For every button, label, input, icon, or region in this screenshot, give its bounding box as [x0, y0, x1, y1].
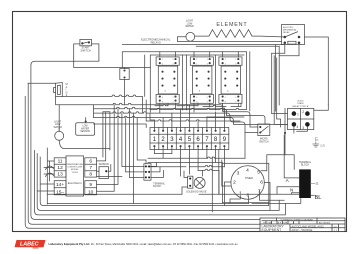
wire: outer left drop: [25, 96, 341, 228]
svg-text:3: 3: [173, 63, 174, 65]
wire: enclosure bottom to relay bus: [74, 61, 151, 67]
label: TEMPERATURE CONTROLLER MODEL Y1020: [67, 163, 84, 185]
wire: bus y113.1: [94, 112, 230, 119]
terminal block TB2 (small): [144, 164, 151, 181]
wire: hop row 2 below relays: [146, 120, 240, 121]
mains inlet plug: [54, 83, 63, 97]
svg-text:2: 2: [233, 180, 236, 186]
svg-text:2: 2: [196, 59, 197, 61]
svg-text:SENSOR: SENSOR: [80, 131, 90, 133]
svg-text:AW13 – 5A000AE: AW13 – 5A000AE: [292, 228, 313, 232]
wire: bus y108.7: [94, 107, 227, 115]
svg-text:7: 7: [173, 102, 174, 104]
wire: [37, 154, 279, 211]
svg-text:BL: BL: [315, 195, 322, 201]
ground E / GR: [313, 137, 326, 148]
svg-text:6: 6: [225, 97, 226, 99]
micro switch S2: [258, 124, 270, 136]
wire: TB2 right stubs: [151, 162, 164, 177]
svg-text:3: 3: [207, 63, 208, 65]
svg-text:WATER: WATER: [185, 25, 194, 28]
wire: controller left feeds: [37, 148, 54, 204]
TB1 terminal dots: [153, 130, 225, 148]
timer T1: [222, 163, 268, 202]
svg-text:WATER: WATER: [81, 127, 89, 130]
wire: nested verticals right of relay bank: [272, 46, 288, 127]
wire: bottom area horizontals: [47, 194, 300, 203]
wire: start switch loop left: [31, 61, 338, 219]
temperature controller U1: [54, 156, 96, 196]
title block: [260, 218, 345, 232]
wire: to timer and right: [189, 157, 245, 176]
svg-text:1: 1: [297, 112, 299, 116]
svg-text:Laboratory Equipment Pty Ltd •: Laboratory Equipment Pty Ltd • 26 - 30 F…: [49, 242, 239, 246]
heating element (zigzag): [195, 30, 285, 38]
svg-text:7: 7: [235, 102, 236, 104]
wire: bus under element: [178, 40, 282, 42]
wire: fuse drops: [124, 68, 126, 105]
svg-text:Eurotherm: Eurotherm: [68, 181, 83, 185]
svg-text:LABEC: LABEC: [20, 242, 39, 248]
wire: left riser group to controller: [35, 151, 286, 215]
solid state relay SSR1: [288, 108, 314, 129]
svg-text:RELAY TYPE ‘A’: RELAY TYPE ‘A’: [292, 105, 309, 108]
svg-text:LOW: LOW: [82, 126, 88, 128]
svg-text:BLOCK: BLOCK: [153, 186, 161, 188]
title block text: [262, 218, 338, 232]
svg-text:AUTOCLAVE MODEL AA12: AUTOCLAVE MODEL AA12: [292, 224, 325, 228]
svg-text:5: 5: [207, 97, 208, 99]
low water sensor: [76, 118, 95, 136]
wire: strip bottom drops: [154, 148, 224, 171]
wire: bus bends to micro/SSR: [223, 112, 265, 133]
svg-text:8: 8: [225, 102, 226, 104]
relay K2: [190, 57, 213, 103]
svg-text:8: 8: [246, 192, 249, 198]
start switch S1: [80, 39, 92, 45]
svg-text:SCHEMATIC WIRING DIAGRAM: SCHEMATIC WIRING DIAGRAM: [280, 218, 312, 221]
wire: middle vertical bundle: [97, 105, 146, 204]
wire: left drop from start bus: [28, 83, 339, 224]
svg-text:TIMER: TIMER: [245, 176, 253, 180]
svg-text:12: 12: [57, 165, 63, 171]
wire: vertical right of relays: [250, 45, 276, 112]
wire: relay drops to strip: [160, 103, 239, 113]
wire: strip top bus links: [150, 113, 244, 120]
solenoid valve V1: [182, 150, 231, 212]
svg-text:4: 4: [297, 125, 299, 129]
wire: between relays: [183, 55, 216, 110]
svg-text:E: E: [315, 137, 319, 143]
svg-text:2: 2: [162, 59, 163, 61]
svg-text:14+: 14+: [56, 182, 64, 188]
svg-text:4: 4: [225, 63, 226, 65]
svg-text:3: 3: [237, 171, 240, 177]
svg-text:6: 6: [89, 159, 92, 165]
svg-text:6: 6: [162, 97, 163, 99]
svg-text:Y1020: Y1020: [72, 172, 79, 174]
wire: hop rows below relays: [150, 108, 247, 109]
wire: timer leads: [224, 155, 285, 211]
sensor probe: [97, 165, 111, 179]
svg-text:1: 1: [207, 59, 208, 61]
wire: B BL stubs: [311, 183, 315, 185]
svg-text:4: 4: [196, 63, 197, 65]
relay bank enclosure 2: [150, 55, 244, 112]
svg-text:7: 7: [89, 165, 92, 171]
TB1 numbers 1-9: [153, 137, 227, 143]
wire: em relay to right drop: [305, 37, 329, 105]
svg-text:2: 2: [302, 110, 304, 114]
svg-text:TEMPERATURE: TEMPERATURE: [67, 163, 84, 166]
svg-text:3: 3: [302, 126, 304, 130]
svg-text:SENSOR: SENSOR: [99, 163, 109, 166]
terminal strip TB1: [150, 128, 229, 150]
wire: lower horizontals: [148, 154, 219, 195]
start switch S1 enclosure: [74, 44, 99, 61]
svg-text:6: 6: [196, 97, 197, 99]
svg-text:EQUIPMENT: EQUIPMENT: [262, 228, 282, 232]
svg-text:4: 4: [162, 63, 163, 65]
wire: SSR leads: [285, 105, 328, 170]
svg-text:5: 5: [173, 97, 174, 99]
svg-text:4: 4: [246, 168, 249, 174]
relay pin labels: [162, 59, 236, 104]
terminal block TB3 (right, black): [299, 161, 312, 198]
svg-text:6: 6: [260, 180, 263, 186]
wire: bus under element 2: [122, 43, 284, 45]
svg-text:ELEMENT: ELEMENT: [216, 22, 247, 28]
svg-text:BLOCK: BLOCK: [301, 164, 310, 167]
svg-text:3: 3: [235, 63, 236, 65]
timer pin numbers: [233, 168, 263, 199]
relay bank enclosure: [122, 52, 246, 109]
wire: TB2 links: [122, 166, 144, 177]
svg-text:1: 1: [235, 59, 236, 61]
svg-text:GR: GR: [320, 144, 326, 148]
lamp: light low water (left): [55, 128, 110, 149]
svg-text:N: N: [290, 188, 293, 193]
wire: sensor bracket drops: [97, 112, 122, 177]
wire: [40, 157, 269, 206]
wire: em relay coil drops: [272, 45, 299, 56]
svg-text:13: 13: [57, 172, 63, 178]
svg-text:11: 11: [58, 159, 63, 165]
wire: bus left tie: [59, 105, 93, 132]
wire: bus y117.6: [94, 116, 288, 124]
svg-text:9: 9: [89, 182, 92, 188]
svg-text:1: 1: [173, 59, 174, 61]
relay K1: [156, 57, 179, 103]
SSR pin numbers: [297, 110, 305, 130]
svg-text:8: 8: [196, 102, 197, 104]
wire: micro switch leads: [245, 121, 258, 158]
wire: bus y104.7: [56, 97, 223, 112]
svg-text:RELAYS: RELAYS: [151, 41, 161, 45]
svg-text:SOLENOID VALVE: SOLENOID VALVE: [186, 190, 207, 193]
svg-text:RELAY: RELAY: [283, 31, 290, 34]
svg-text:A/C 96/305: A/C 96/305: [319, 222, 331, 225]
svg-text:B: B: [316, 181, 319, 186]
wire: mains to main bus: [62, 95, 142, 113]
svg-text:DRL: DRL: [284, 223, 289, 225]
wire: relay top feeds: [160, 52, 239, 57]
svg-text:SWITCH: SWITCH: [80, 49, 90, 53]
svg-text:2: 2: [225, 59, 226, 61]
wire: hops row: [94, 124, 147, 128]
svg-text:SWITCH: SWITCH: [259, 140, 269, 143]
wire: strip top feeds: [154, 105, 224, 130]
svg-text:8: 8: [162, 102, 163, 104]
svg-text:TERMINAL: TERMINAL: [153, 182, 165, 185]
wire: bus under element 3: [196, 45, 279, 47]
U1 terminal numbers: [56, 159, 94, 196]
wire: jog run below relays: [155, 103, 241, 106]
svg-text:WATER: WATER: [54, 126, 63, 129]
fuse box F1: [120, 69, 129, 80]
electro-mechanical relay (top right): [282, 25, 305, 45]
wire: vertical left of relay K1: [145, 55, 147, 121]
wire: A N feeds: [277, 135, 299, 194]
svg-text:8: 8: [89, 172, 92, 178]
lamp: light low water (top): [178, 32, 195, 41]
wire: loop marks: [46, 161, 54, 181]
svg-text:STATE: STATE: [297, 102, 304, 105]
svg-text:5: 5: [235, 97, 236, 99]
relay K3: [219, 57, 242, 103]
svg-text:7: 7: [207, 102, 208, 104]
wire: mains upper branch: [28, 82, 55, 84]
footer logo LABEC: [15, 240, 46, 248]
svg-text:5: 5: [257, 170, 260, 176]
